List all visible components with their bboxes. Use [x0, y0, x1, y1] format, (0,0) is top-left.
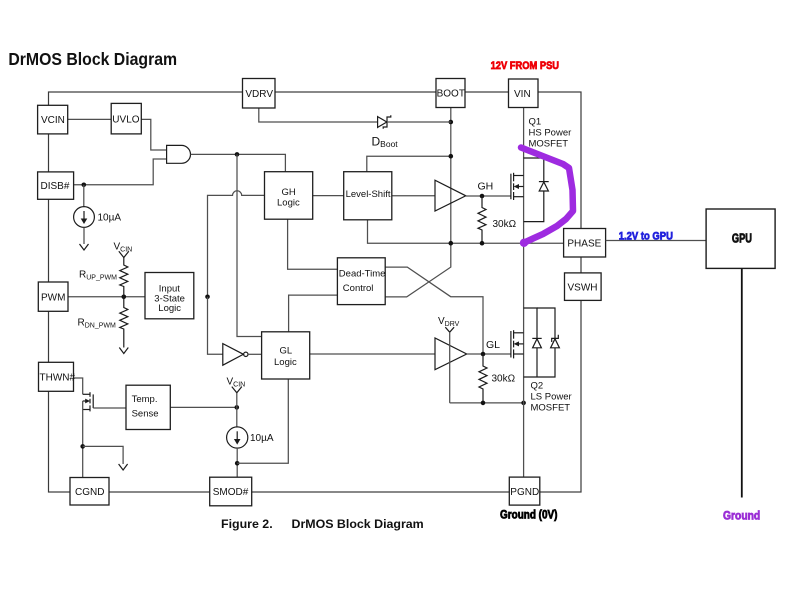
- wire Q3 gate lead to Temp Sense: [93, 407, 126, 409]
- svg-text:SMOD#: SMOD#: [213, 487, 249, 498]
- ground arrow: [80, 244, 89, 250]
- svg-text:HS Power: HS Power: [529, 128, 572, 139]
- transistor Q1: [511, 173, 524, 200]
- ground arrow RDN: [119, 348, 128, 354]
- wire VDRV to DBoot diode: [259, 108, 378, 122]
- pin CGND: [70, 478, 109, 506]
- node phase-R1: [480, 241, 485, 246]
- block Input 3-State Logic: [145, 273, 194, 319]
- wire AND output: [191, 154, 286, 171]
- amp GH driver: [435, 180, 466, 211]
- node AND out: [235, 152, 240, 157]
- svg-text:VDRV: VDRV: [245, 89, 273, 100]
- resistor R2 30k: [479, 354, 487, 403]
- wire source to arrow: [83, 227, 85, 244]
- pin PHASE: [564, 229, 606, 258]
- wire bottom rail GL: [450, 402, 524, 404]
- block GH Logic: [265, 172, 313, 220]
- wire phase row: [451, 242, 564, 244]
- svg-text:Logic: Logic: [277, 197, 300, 208]
- wire GH row: [466, 195, 511, 197]
- svg-text:DrMOS Block Diagram: DrMOS Block Diagram: [8, 49, 177, 69]
- wire phase to PGND rail: [523, 243, 525, 477]
- node PWM divider: [122, 295, 127, 300]
- wire Level-Shift bottom to phase node: [368, 220, 451, 243]
- svg-text:VIN: VIN: [514, 89, 531, 100]
- svg-text:Q2: Q2: [531, 381, 544, 392]
- svg-text:30kΩ: 30kΩ: [492, 374, 516, 385]
- wire Level-Shift to GH driver: [392, 195, 435, 197]
- diode D3 schottky Q2: [524, 308, 560, 377]
- resistor RDN_PWM: [120, 297, 128, 348]
- diode D1 body Q1: [524, 158, 549, 222]
- wire Level-Shift top to BOOT rail: [367, 156, 451, 172]
- resistor RUP_PWM: [120, 258, 128, 297]
- pin BOOT: [436, 79, 465, 108]
- svg-text:UVLO: UVLO: [112, 114, 139, 125]
- wire VCIN-UVLO: [68, 118, 112, 120]
- wire 3-state down to inverter: [208, 297, 223, 355]
- pin VCIN: [38, 105, 68, 134]
- transistor Q3 thermal: [83, 392, 94, 411]
- wire UVLO to AND input A: [141, 119, 166, 150]
- svg-text:BOOT: BOOT: [437, 89, 465, 100]
- wire Dead-Time to GL Logic top: [289, 295, 338, 332]
- supply VCIN symbol: [119, 251, 129, 257]
- svg-text:PHASE: PHASE: [567, 238, 601, 249]
- svg-text:Dead-Time: Dead-Time: [339, 269, 386, 280]
- node DISB branch: [82, 183, 87, 188]
- svg-text:VCIN: VCIN: [41, 115, 65, 126]
- wire GPU ground: [741, 268, 743, 497]
- node SMOD: [235, 461, 240, 466]
- amp GL driver: [435, 338, 467, 370]
- wire inverter out to GL Logic: [248, 353, 262, 355]
- svg-text:Temp.: Temp.: [132, 394, 158, 405]
- wire Q3 node to ground arrow: [83, 446, 123, 464]
- svg-text:GL: GL: [280, 346, 293, 357]
- wire BOOT rail: [450, 108, 452, 244]
- node DBoot junction: [449, 120, 454, 125]
- block Temp Sense: [126, 385, 170, 429]
- current source I1 10uA: [74, 207, 95, 228]
- block Level-Shift: [344, 172, 392, 220]
- ground arrow Q3: [119, 464, 128, 470]
- box GPU: [706, 209, 775, 268]
- node GL: [481, 352, 486, 357]
- pin VDRV: [243, 79, 276, 109]
- supply VCIN symbol 2: [232, 387, 242, 393]
- inverter bubble: [244, 352, 248, 356]
- svg-text:GPU: GPU: [732, 232, 752, 246]
- pin PGND: [509, 477, 540, 505]
- block GL Logic: [262, 332, 310, 379]
- node level-shift top junction: [449, 154, 454, 159]
- svg-text:CGND: CGND: [75, 487, 104, 498]
- diode DBoot: [378, 115, 391, 129]
- svg-text:Ground: Ground: [723, 510, 760, 523]
- wire dead-time cross B: [385, 243, 451, 297]
- svg-text:10µA: 10µA: [98, 213, 122, 224]
- svg-text:PGND: PGND: [510, 487, 539, 498]
- svg-text:Sense: Sense: [132, 409, 159, 420]
- wire VDRV rail through GL driver: [449, 332, 451, 403]
- svg-text:DrMOS Block Diagram: DrMOS Block Diagram: [292, 517, 424, 531]
- supply VDRV symbol: [445, 327, 454, 332]
- wire GH Logic to Level-Shift: [313, 195, 344, 197]
- current source I2 10uA: [227, 427, 248, 448]
- svg-text:LS Power: LS Power: [531, 392, 572, 403]
- wire dead-time cross A: [385, 267, 483, 354]
- node temp/vcin: [235, 405, 240, 410]
- wire GL Logic out to GL driver: [310, 353, 435, 355]
- wire Q3 source down: [82, 401, 84, 478]
- pin DISB#: [38, 172, 74, 199]
- svg-text:MOSFET: MOSFET: [531, 403, 571, 414]
- wire GL row: [467, 353, 511, 355]
- svg-text:DISB#: DISB#: [41, 181, 70, 192]
- resistor R1 30k: [478, 196, 486, 243]
- node phase-Q1: [521, 241, 526, 246]
- block UVLO: [111, 103, 141, 133]
- svg-text:Logic: Logic: [158, 303, 181, 314]
- node GH: [480, 194, 485, 199]
- wire DISB# to AND input B: [74, 159, 167, 185]
- svg-text:Logic: Logic: [274, 357, 297, 368]
- pin THWN#: [39, 362, 76, 391]
- svg-text:Level-Shift: Level-Shift: [346, 189, 391, 200]
- wire PWM row: [68, 296, 145, 298]
- svg-text:MOSFET: MOSFET: [529, 139, 569, 150]
- svg-text:12V FROM PSU: 12V FROM PSU: [491, 60, 559, 72]
- wire DISB to current source: [83, 185, 85, 207]
- gate U1 AND: [167, 145, 191, 163]
- wire THWN# to Q3 gate: [74, 378, 83, 394]
- wire I2 to SMOD: [236, 448, 238, 477]
- transistor Q2: [511, 330, 524, 358]
- node 3-state out: [205, 295, 210, 300]
- wire vcin node down: [236, 393, 238, 427]
- pin SMOD#: [210, 477, 252, 506]
- node phase-boot: [449, 241, 454, 246]
- svg-text:30kΩ: 30kΩ: [493, 219, 517, 230]
- svg-text:Figure 2.: Figure 2.: [221, 517, 273, 531]
- svg-text:Ground (0V): Ground (0V): [500, 509, 558, 522]
- wire 3-state to GH Logic with hop: [208, 191, 265, 297]
- node rail-R2: [481, 401, 486, 406]
- svg-text:10µA: 10µA: [250, 433, 274, 444]
- svg-text:GL: GL: [486, 339, 500, 351]
- IC package outline: [49, 92, 582, 492]
- marker highlight around Q1: [521, 148, 573, 243]
- svg-text:VSWH: VSWH: [568, 282, 598, 293]
- svg-text:Q1: Q1: [529, 117, 542, 128]
- pin PWM: [38, 282, 68, 311]
- svg-text:Control: Control: [343, 283, 374, 294]
- wire Temp Sense to VCIN node: [170, 406, 237, 408]
- wire DBoot to BOOT rail: [387, 121, 451, 123]
- marker end blob: [520, 239, 528, 247]
- gate U2 inverter: [223, 344, 244, 366]
- wire VIN to Q1 drain rail: [523, 108, 525, 244]
- node rail-Q2: [521, 401, 526, 406]
- svg-text:1.2V to GPU: 1.2V to GPU: [619, 231, 673, 243]
- svg-text:THWN#: THWN#: [40, 372, 76, 383]
- wire GH Logic bottom to Dead-Time: [288, 219, 338, 269]
- diode D2 body Q2: [524, 308, 542, 377]
- node Q3 source: [80, 444, 85, 449]
- wire SMOD node to GL Logic bottom: [237, 379, 288, 463]
- svg-text:GH: GH: [478, 181, 494, 193]
- wire AND branch to GL Logic: [237, 154, 262, 336]
- pin VSWH: [565, 273, 602, 301]
- pin VIN: [509, 79, 539, 108]
- block Dead-Time Control: [337, 258, 385, 305]
- svg-text:PWM: PWM: [41, 292, 65, 303]
- wire PHASE to GPU: [606, 240, 707, 242]
